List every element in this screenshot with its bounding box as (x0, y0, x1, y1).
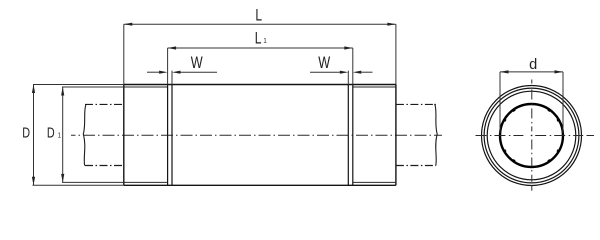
svg-text:1: 1 (263, 38, 267, 46)
end view vertical centerline (531, 80, 533, 191)
dimension d arrows (500, 70, 563, 73)
bearing body outline (124, 85, 396, 186)
svg-text:W: W (318, 55, 330, 73)
dimension D1 arrows (61, 87, 64, 182)
svg-text:D: D (47, 124, 55, 141)
shaft phantom right top edge (396, 103, 436, 105)
dimension W right arrows (340, 71, 362, 74)
shaft phantom left top edge (85, 103, 124, 105)
centerline side view (71, 134, 442, 136)
label D1 (47, 124, 55, 141)
end cap inner lines right (353, 87, 396, 182)
dimension D1 lines (62, 87, 124, 182)
shaft phantom left bottom edge (85, 165, 124, 167)
dimension W left arrows (159, 71, 180, 74)
dimension W right lines (310, 71, 373, 85)
end view horizontal centerline (476, 135, 595, 137)
label D (22, 124, 30, 141)
shaft break line left (83, 104, 86, 165)
dimension L1 arrows (168, 46, 353, 49)
dimension d lines (500, 72, 563, 133)
end view chamfer circle (484, 88, 579, 183)
dimension W left lines (147, 71, 217, 85)
label W right (318, 55, 330, 73)
label W left (191, 55, 203, 73)
shaft break line right (435, 104, 438, 166)
dimension L lines (124, 24, 396, 84)
end view bore circle (500, 104, 563, 167)
dimension D lines (33, 85, 124, 186)
svg-text:d: d (529, 57, 537, 73)
ring groove right (348, 85, 353, 186)
svg-text:D: D (22, 124, 30, 141)
end cap inner lines left (124, 87, 168, 182)
end view outer circle (482, 86, 582, 186)
ring groove left (168, 85, 172, 186)
end view cap circle (487, 91, 576, 180)
svg-text:L: L (255, 30, 262, 48)
label L1 (255, 30, 262, 48)
dimension L arrows (124, 23, 396, 26)
dimension D arrows (32, 85, 35, 186)
svg-text:L: L (255, 7, 262, 25)
svg-text:1: 1 (58, 132, 62, 140)
svg-text:W: W (191, 55, 203, 73)
dimension L1 lines (168, 48, 353, 85)
shaft phantom right bottom edge (396, 165, 436, 167)
label L (255, 7, 262, 25)
ball track notches (505, 110, 559, 161)
